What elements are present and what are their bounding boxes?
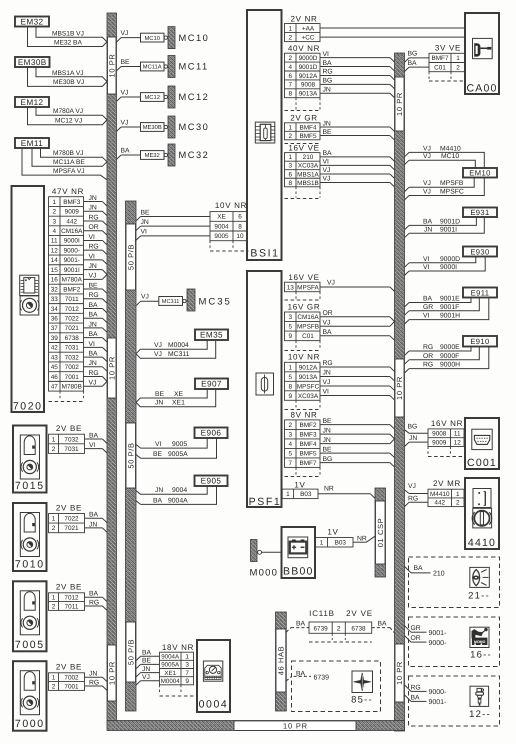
injector 7015 [13, 426, 47, 493]
svg-text:50 P/B: 50 P/B [126, 244, 135, 270]
svg-text:16: 16 [51, 277, 59, 284]
svg-text:1: 1 [52, 199, 56, 206]
svg-text:7031: 7031 [65, 345, 80, 352]
svg-text:E911: E911 [471, 288, 490, 297]
svg-text:1: 1 [52, 675, 56, 682]
svg-text:M0004: M0004 [168, 342, 189, 349]
svg-text:9001-: 9001- [429, 630, 448, 637]
svg-text:CM16A: CM16A [61, 228, 83, 235]
battery BB00 [282, 527, 316, 578]
svg-text:MC311: MC311 [162, 299, 180, 305]
svg-text:MC12 VJ: MC12 VJ [55, 118, 82, 125]
wire VJ M0004 [136, 340, 207, 354]
svg-text:CA00: CA00 [466, 82, 497, 94]
wire JN XE1 [136, 389, 216, 407]
svg-text:BA: BA [89, 432, 99, 439]
svg-text:9013A: 9013A [299, 374, 318, 381]
svg-text:VJ: VJ [423, 145, 431, 152]
ground MC10 [168, 27, 175, 49]
svg-text:BE: BE [153, 451, 163, 458]
svg-text:9004: 9004 [214, 223, 229, 230]
svg-text:9004A: 9004A [161, 654, 180, 661]
svg-text:2: 2 [52, 525, 56, 532]
left harness bar 10 PR [107, 13, 117, 721]
svg-text:BMF4: BMF4 [299, 441, 316, 448]
svg-text:9000I: 9000I [64, 238, 80, 245]
instrument 0004 [197, 640, 230, 712]
junction box EM11 [15, 138, 49, 148]
svg-text:2: 2 [288, 55, 292, 62]
svg-text:JN: JN [323, 86, 331, 93]
svg-text:10 PR: 10 PR [107, 661, 116, 685]
svg-text:46: 46 [51, 374, 59, 381]
svg-text:7011: 7011 [65, 296, 79, 303]
svg-text:BA: BA [414, 565, 424, 572]
svg-text:BA: BA [323, 150, 333, 157]
svg-text:7031: 7031 [64, 446, 79, 453]
svg-text:210: 210 [303, 154, 314, 161]
svg-text:2: 2 [456, 500, 460, 507]
wire MPSFA VJ [22, 148, 107, 180]
svg-text:RG: RG [423, 362, 433, 369]
middle harness bar 50 P/B [126, 201, 137, 711]
svg-text:BMF2: BMF2 [63, 286, 80, 293]
svg-text:JN: JN [323, 427, 331, 434]
svg-text:4: 4 [288, 64, 292, 71]
svg-text:BA: BA [153, 497, 163, 504]
svg-text:7000: 7000 [15, 718, 45, 730]
svg-text:RG: RG [423, 344, 433, 351]
wire VJ to MC10 [117, 38, 122, 42]
wire JN 9004 [136, 491, 141, 495]
svg-text:MC10: MC10 [179, 33, 210, 43]
svg-text:4: 4 [288, 441, 292, 448]
svg-text:442: 442 [66, 218, 77, 225]
7020 pump icon [20, 296, 39, 315]
ECU 7020 [12, 186, 45, 412]
svg-text:MOMO: MOMO [474, 640, 486, 644]
svg-text:MPSFA VJ: MPSFA VJ [53, 168, 85, 175]
svg-text:2: 2 [288, 422, 292, 429]
wire M780A VJ [36, 107, 107, 120]
svg-text:8: 8 [238, 223, 242, 230]
svg-text:BA: BA [142, 649, 152, 656]
svg-text:9001D: 9001D [299, 64, 318, 71]
svg-text:RG: RG [89, 679, 99, 686]
svg-text:2V BE: 2V BE [56, 503, 82, 512]
svg-text:BA: BA [408, 60, 418, 67]
svg-text:7032: 7032 [65, 354, 80, 361]
svg-text:7002: 7002 [64, 675, 79, 682]
wire VI 9000I [405, 271, 410, 275]
svg-text:9008: 9008 [301, 82, 316, 89]
svg-text:VJ: VJ [327, 280, 335, 287]
svg-text:9005: 9005 [172, 441, 187, 448]
svg-text:VI: VI [89, 341, 96, 348]
CA00 key icon [473, 38, 493, 58]
connector MC311 [159, 297, 183, 306]
svg-text:6: 6 [238, 214, 242, 221]
svg-text:7022: 7022 [64, 516, 79, 523]
svg-text:BE: BE [155, 391, 165, 398]
svg-text:9000H: 9000H [440, 362, 460, 369]
svg-text:VJ: VJ [423, 180, 431, 187]
injector 7005 [13, 581, 47, 651]
svg-text:2: 2 [52, 446, 56, 453]
svg-text:MC11A: MC11A [143, 64, 162, 71]
svg-text:MC30: MC30 [179, 122, 210, 132]
junction box E930 [463, 247, 497, 257]
svg-text:MC35: MC35 [199, 296, 232, 307]
svg-text:JN: JN [89, 195, 97, 202]
svg-text:2: 2 [456, 64, 460, 71]
svg-text:NR: NR [324, 486, 334, 493]
wire MC11A BE [32, 148, 107, 166]
svg-text:6: 6 [288, 171, 292, 178]
svg-text:ME30B VJ: ME30B VJ [53, 79, 84, 86]
svg-text:9000D: 9000D [299, 55, 318, 62]
svg-text:12: 12 [454, 439, 462, 446]
wire VI 9001H [405, 320, 410, 324]
svg-text:IC11B: IC11B [309, 609, 335, 618]
bottom harness bar 10 PR [107, 721, 405, 731]
svg-text:21--: 21-- [468, 590, 490, 601]
svg-text:8V NR: 8V NR [290, 410, 317, 419]
svg-text:2V BE: 2V BE [56, 424, 82, 433]
svg-text:2: 2 [52, 603, 56, 610]
svg-text:VJ: VJ [121, 30, 129, 37]
svg-text:2V NR: 2V NR [290, 14, 317, 23]
svg-text:7001: 7001 [65, 374, 80, 381]
svg-text:M0004: M0004 [161, 678, 180, 685]
wire MBS1A VJ [36, 67, 107, 82]
svg-text:BMF3: BMF3 [63, 199, 80, 206]
ground MC35 [187, 289, 195, 311]
ground MC30 [168, 116, 175, 138]
svg-text:BE: BE [323, 446, 333, 453]
svg-text:5: 5 [288, 324, 292, 331]
svg-text:RG: RG [89, 370, 99, 377]
svg-text:33: 33 [51, 296, 59, 303]
svg-text:9005A: 9005A [168, 451, 188, 458]
svg-text:1: 1 [52, 595, 56, 602]
option box 16 [409, 617, 500, 667]
svg-text:01 CSP: 01 CSP [376, 518, 385, 547]
svg-text:BA: BA [411, 694, 421, 701]
wire VI 9005 [136, 445, 141, 449]
BB00 battery icon [288, 537, 308, 558]
option box 12 [409, 676, 500, 726]
wire GR 9001F [405, 311, 410, 315]
svg-text:34: 34 [51, 306, 59, 313]
svg-text:+CC: +CC [302, 34, 315, 41]
svg-text:1: 1 [288, 364, 292, 371]
svg-text:9001I: 9001I [64, 267, 80, 274]
wire BA to MC32 [117, 155, 122, 159]
ground MC32 [168, 144, 175, 166]
svg-text:M4410: M4410 [440, 145, 461, 152]
injector 7000 [13, 661, 47, 731]
svg-text:3V VE: 3V VE [435, 43, 461, 52]
svg-text:MBS1A VJ: MBS1A VJ [52, 70, 84, 77]
wire BA 9001E [405, 303, 410, 307]
svg-text:210: 210 [433, 571, 445, 578]
wire VJ MC311 [136, 340, 216, 358]
svg-text:10 PR: 10 PR [283, 721, 308, 730]
svg-text:E905: E905 [201, 477, 222, 486]
svg-text:10 PR: 10 PR [395, 92, 404, 116]
svg-text:JN: JN [155, 400, 163, 407]
svg-text:7022: 7022 [65, 316, 80, 323]
svg-text:JN: JN [323, 437, 331, 444]
svg-text:MC12: MC12 [144, 94, 159, 101]
svg-text:GR: GR [423, 304, 433, 311]
junction box E910 [463, 336, 497, 347]
ground MC12 [168, 86, 175, 108]
svg-text:9001I: 9001I [440, 226, 457, 233]
svg-text:RG: RG [89, 244, 99, 251]
wire BA 9001D [405, 225, 410, 229]
svg-text:VJ: VJ [154, 342, 162, 349]
svg-text:1: 1 [185, 654, 189, 661]
svg-text:XE1: XE1 [164, 670, 176, 677]
svg-text:VJ: VJ [141, 294, 149, 301]
wire MC12 VJ [28, 107, 108, 125]
svg-text:VI: VI [141, 229, 148, 236]
svg-text:BA: BA [323, 329, 333, 336]
svg-text:2V VE: 2V VE [346, 609, 373, 618]
svg-text:36: 36 [51, 316, 59, 323]
svg-text:9000-: 9000- [429, 640, 448, 647]
svg-text:VJ: VJ [142, 674, 150, 681]
wire +AA to CA00 [320, 27, 465, 29]
svg-text:BG: BG [323, 456, 333, 463]
junction box E911 [463, 288, 497, 298]
svg-text:RG: RG [323, 69, 333, 76]
svg-text:442: 442 [434, 500, 445, 507]
svg-text:37: 37 [51, 325, 59, 332]
svg-text:10V NR: 10V NR [288, 353, 320, 362]
junction box EM10 [463, 168, 497, 178]
wire M780B VJ [41, 148, 108, 162]
svg-text:46 HAB: 46 HAB [277, 646, 286, 675]
svg-text:9001F: 9001F [440, 304, 459, 311]
C001 icon [472, 429, 492, 449]
svg-text:45: 45 [51, 364, 59, 371]
svg-text:7020: 7020 [13, 401, 43, 413]
svg-text:RG: RG [89, 292, 99, 299]
0004 gauge icon [203, 661, 222, 681]
svg-text:9008: 9008 [432, 431, 447, 438]
svg-text:BMF2: BMF2 [299, 422, 316, 429]
svg-text:2: 2 [337, 625, 341, 632]
svg-text:9: 9 [288, 393, 292, 400]
ignition switch supply CA00 [465, 13, 499, 94]
svg-text:9: 9 [185, 678, 189, 685]
svg-text:XE: XE [217, 214, 226, 221]
svg-text:MC32: MC32 [179, 150, 210, 160]
svg-text:C001: C001 [467, 457, 497, 469]
ground MC11 [168, 56, 175, 78]
svg-text:BE: BE [121, 59, 131, 66]
svg-text:6: 6 [288, 73, 292, 80]
svg-text:9005: 9005 [214, 233, 229, 240]
svg-text:RG: RG [323, 360, 333, 367]
svg-text:BE: BE [142, 658, 152, 665]
svg-text:E910: E910 [470, 337, 489, 346]
svg-text:MBS1B VJ: MBS1B VJ [52, 30, 84, 37]
svg-text:9000E: 9000E [440, 344, 460, 351]
svg-text:7012: 7012 [64, 595, 79, 602]
svg-text:RG: RG [411, 684, 421, 691]
svg-text:2V BE: 2V BE [56, 663, 82, 672]
junction box EM32 [15, 17, 49, 27]
svg-text:50 P/B: 50 P/B [126, 442, 135, 468]
body controller BSI1 [247, 10, 282, 260]
svg-text:BA: BA [378, 621, 388, 628]
svg-text:EM35: EM35 [200, 331, 223, 340]
svg-text:MPSFB: MPSFB [297, 324, 319, 331]
svg-text:2V BE: 2V BE [56, 583, 82, 592]
svg-text:XE: XE [174, 391, 184, 398]
svg-text:VI: VI [89, 253, 96, 260]
svg-text:47: 47 [51, 384, 59, 391]
svg-text:MPSFB: MPSFB [440, 180, 464, 187]
wire BA 9004A [136, 501, 141, 505]
svg-text:JN: JN [142, 666, 150, 673]
svg-text:1: 1 [320, 540, 324, 547]
wire +CC to CA00 [320, 36, 465, 38]
svg-text:9001D: 9001D [440, 218, 460, 225]
svg-text:BE: BE [323, 129, 333, 136]
svg-text:16V VE: 16V VE [288, 273, 319, 282]
svg-text:7005: 7005 [15, 639, 45, 651]
svg-text:3: 3 [288, 314, 292, 321]
svg-text:39: 39 [51, 335, 59, 342]
wire VJ to MC12 [117, 97, 122, 101]
svg-text:JN: JN [141, 219, 149, 226]
svg-text:B03: B03 [300, 491, 312, 498]
svg-text:NR: NR [357, 535, 367, 542]
svg-text:1: 1 [286, 491, 290, 498]
svg-text:JN: JN [89, 263, 97, 270]
svg-text:XC03A: XC03A [298, 163, 319, 170]
svg-text:1: 1 [52, 436, 56, 443]
svg-text:9001H: 9001H [440, 313, 460, 320]
option 85 icon [352, 671, 373, 693]
svg-text:JN: JN [89, 521, 97, 528]
svg-text:RG: RG [408, 495, 418, 502]
svg-text:1: 1 [52, 516, 56, 523]
svg-text:13: 13 [287, 284, 295, 291]
wire VJ M4410 [405, 152, 410, 156]
svg-text:4: 4 [52, 228, 56, 235]
svg-text:10 PR: 10 PR [107, 54, 116, 78]
svg-text:MBS1A: MBS1A [297, 171, 319, 178]
svg-text:VI: VI [423, 256, 430, 263]
svg-text:2: 2 [52, 683, 56, 690]
svg-text:MBS1B: MBS1B [297, 180, 319, 187]
svg-text:11: 11 [454, 431, 461, 438]
svg-text:47V NR: 47V NR [52, 187, 84, 196]
svg-text:7: 7 [288, 82, 292, 89]
svg-text:M780A: M780A [62, 277, 83, 284]
svg-text:VI: VI [89, 234, 96, 241]
svg-text:10V NR: 10V NR [215, 201, 247, 210]
svg-text:9012A: 9012A [299, 73, 318, 80]
svg-text:11: 11 [51, 238, 58, 245]
junction box EM12 [15, 97, 49, 107]
svg-text:BA: BA [423, 218, 433, 225]
injector 7010 [13, 503, 47, 571]
svg-text:7: 7 [185, 670, 189, 677]
svg-text:BE: BE [141, 209, 151, 216]
svg-text:M4410: M4410 [430, 491, 450, 498]
svg-text:VJ: VJ [423, 153, 431, 160]
svg-text:BSI1: BSI1 [250, 247, 279, 259]
ignition switch 4410 [465, 478, 499, 549]
connector MC12 [141, 93, 165, 102]
svg-text:PSF1: PSF1 [249, 496, 282, 508]
svg-text:2V MR: 2V MR [433, 479, 461, 488]
wire RG 9000H [405, 369, 410, 373]
svg-text:EM30B: EM30B [18, 58, 47, 67]
svg-text:+AA: +AA [302, 25, 315, 32]
svg-text:OR: OR [423, 353, 433, 360]
PSF1 fuse icon [256, 373, 274, 395]
connector MC10 [141, 33, 165, 42]
svg-text:BA: BA [89, 591, 99, 598]
svg-text:VJ: VJ [121, 119, 129, 126]
svg-text:BE: BE [89, 282, 99, 289]
svg-text:7001: 7001 [64, 683, 79, 690]
svg-text:9000-: 9000- [429, 689, 448, 696]
harness bar 01 CSP [375, 488, 386, 577]
svg-text:BMF7: BMF7 [431, 55, 448, 62]
wire ME30B VJ [28, 67, 108, 86]
svg-text:16V GR: 16V GR [288, 303, 321, 312]
svg-text:BG: BG [408, 423, 418, 430]
svg-text:85--: 85-- [351, 694, 373, 705]
connector ME30B [141, 123, 165, 132]
wire JN 9001I [405, 233, 410, 237]
svg-text:XE1: XE1 [172, 400, 185, 407]
svg-text:3: 3 [185, 662, 189, 669]
svg-text:BG: BG [323, 78, 333, 85]
svg-text:BA: BA [296, 621, 306, 628]
svg-text:EM32: EM32 [21, 17, 44, 26]
svg-text:VJ: VJ [154, 351, 162, 358]
svg-text:M780A VJ: M780A VJ [53, 108, 83, 115]
svg-text:VJ: VJ [323, 176, 331, 183]
svg-text:14: 14 [51, 257, 59, 264]
svg-text:10 PR: 10 PR [395, 661, 404, 685]
svg-text:MC12: MC12 [179, 92, 210, 102]
svg-text:9004: 9004 [172, 487, 187, 494]
svg-text:EM12: EM12 [21, 98, 44, 107]
svg-text:4410: 4410 [468, 537, 496, 549]
svg-text:VI: VI [423, 313, 430, 320]
junction box E905 [195, 476, 228, 487]
svg-text:GR: GR [411, 625, 421, 632]
wire BE XE [136, 389, 207, 402]
svg-text:7021: 7021 [65, 325, 80, 332]
svg-text:BA: BA [423, 296, 433, 303]
svg-text:BA: BA [89, 512, 99, 519]
svg-text:VI: VI [155, 441, 162, 448]
svg-text:3: 3 [288, 431, 292, 438]
svg-text:VJ: VJ [323, 319, 331, 326]
